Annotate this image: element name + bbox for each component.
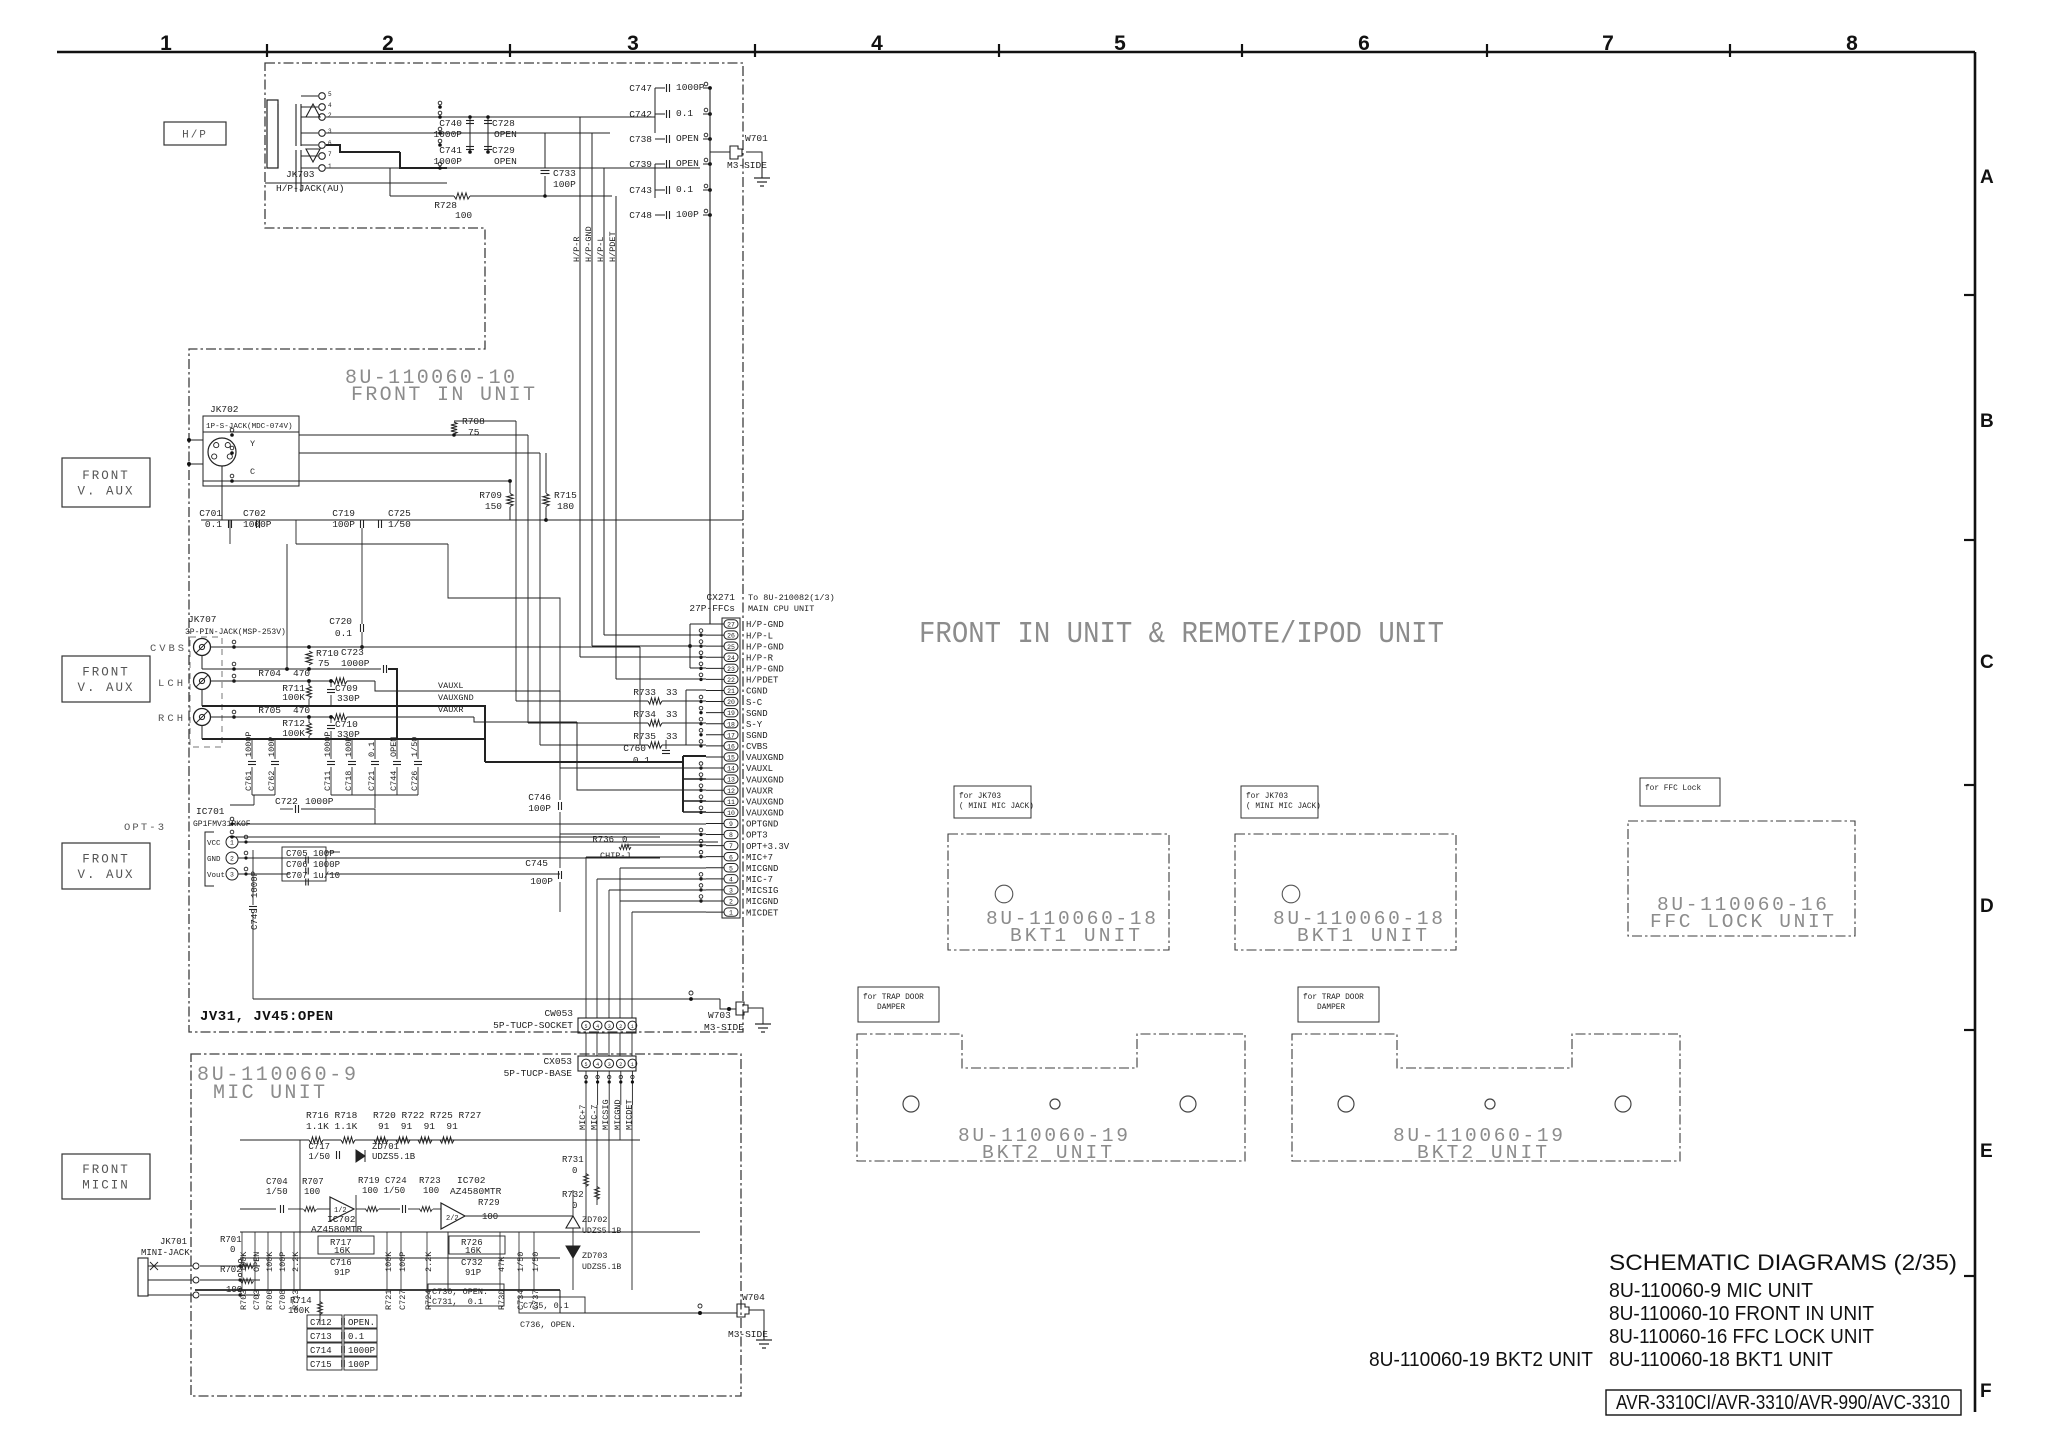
svg-text:5: 5 <box>584 1062 587 1068</box>
svg-text:AVR-3310CI/AVR-3310/AVR-990/AV: AVR-3310CI/AVR-3310/AVR-990/AVC-3310 <box>1616 1392 1950 1414</box>
svg-text:1/50: 1/50 <box>516 1252 526 1272</box>
svg-text:C761: C761 <box>244 771 254 791</box>
svg-text:C714: C714 <box>310 1346 332 1356</box>
svg-text:LCH: LCH <box>158 678 183 690</box>
svg-text:SGND: SGND <box>746 731 768 741</box>
svg-text:R708: R708 <box>462 416 485 427</box>
svg-text:V. AUX: V. AUX <box>77 681 134 695</box>
svg-text:VCC: VCC <box>207 840 221 848</box>
svg-text:R705: R705 <box>258 705 281 716</box>
svg-text:100P: 100P <box>313 849 335 859</box>
svg-text:C702: C702 <box>243 508 266 519</box>
svg-text:16K: 16K <box>465 1246 482 1256</box>
svg-text:2: 2 <box>328 112 332 119</box>
svg-text:3: 3 <box>627 32 639 55</box>
svg-text:GP1FMV31RKOF: GP1FMV31RKOF <box>193 820 251 829</box>
svg-text:VAUXGND: VAUXGND <box>746 797 784 807</box>
svg-text:C706: C706 <box>286 860 308 870</box>
svg-text:19: 19 <box>727 710 735 717</box>
svg-text:C722: C722 <box>275 796 298 807</box>
svg-text:91 91 91 91: 91 91 91 91 <box>378 1121 458 1132</box>
svg-text:6: 6 <box>729 854 733 861</box>
svg-text:MICGND: MICGND <box>746 864 778 874</box>
svg-text:M3-SIDE: M3-SIDE <box>727 160 767 171</box>
svg-text:R721: R721 <box>384 1290 394 1310</box>
svg-text:( MINI MIC JACK): ( MINI MIC JACK) <box>959 803 1034 811</box>
svg-text:for JK703: for JK703 <box>959 793 1001 801</box>
svg-text:R736: R736 <box>592 835 614 845</box>
svg-text:R709: R709 <box>479 490 502 501</box>
svg-text:OPEN: OPEN <box>676 133 699 144</box>
svg-text:2: 2 <box>619 1062 622 1068</box>
svg-text:1P-S-JACK(MDC-074V): 1P-S-JACK(MDC-074V) <box>206 423 293 431</box>
svg-text:FRONT: FRONT <box>82 1163 130 1177</box>
svg-text:UDZS5.1B: UDZS5.1B <box>372 1152 416 1162</box>
svg-text:0.1: 0.1 <box>348 1332 364 1342</box>
svg-text:1: 1 <box>160 32 172 55</box>
svg-text:CX053: CX053 <box>543 1056 572 1067</box>
svg-text:C727: C727 <box>398 1290 408 1310</box>
svg-text:C740: C740 <box>439 118 462 129</box>
svg-text:F: F <box>1980 1381 1992 1402</box>
svg-text:100P: 100P <box>344 737 354 757</box>
svg-text:27P-FFCs: 27P-FFCs <box>689 603 735 614</box>
svg-text:OPEN: OPEN <box>252 1252 262 1272</box>
svg-text:Vout: Vout <box>207 872 225 880</box>
svg-text:SGND: SGND <box>746 709 768 719</box>
svg-text:100K: 100K <box>282 692 305 703</box>
svg-text:9: 9 <box>729 821 733 828</box>
svg-text:100P: 100P <box>348 1360 370 1370</box>
svg-text:C703: C703 <box>252 1290 262 1310</box>
svg-text:R720 R722 R725 R727: R720 R722 R725 R727 <box>373 1110 481 1121</box>
svg-text:VAUXGND: VAUXGND <box>438 693 474 703</box>
svg-text:R715: R715 <box>554 490 577 501</box>
svg-text:H/P-R: H/P-R <box>572 236 582 262</box>
svg-text:2: 2 <box>382 32 394 55</box>
svg-text:1: 1 <box>729 910 733 917</box>
svg-text:W701: W701 <box>745 133 768 144</box>
svg-text:ZD703: ZD703 <box>582 1251 608 1261</box>
svg-text:1: 1 <box>328 163 332 170</box>
svg-text:1000P: 1000P <box>243 519 272 530</box>
svg-text:JK702: JK702 <box>210 404 239 415</box>
svg-text:C: C <box>1980 652 1994 673</box>
svg-text:CW053: CW053 <box>544 1008 573 1019</box>
svg-text:VAUXR: VAUXR <box>746 786 774 796</box>
svg-text:100K: 100K <box>239 1251 249 1272</box>
svg-text:H/P-JACK(AU): H/P-JACK(AU) <box>276 183 344 194</box>
svg-text:C720: C720 <box>329 616 352 627</box>
svg-text:33: 33 <box>666 709 678 720</box>
svg-text:2: 2 <box>729 899 733 906</box>
svg-text:C705: C705 <box>286 849 308 859</box>
svg-text:R704: R704 <box>258 668 281 679</box>
svg-text:JK701: JK701 <box>160 1237 187 1247</box>
svg-text:M3-SIDE: M3-SIDE <box>704 1022 744 1033</box>
svg-text:23: 23 <box>727 666 735 673</box>
svg-text:AZ4580MTR: AZ4580MTR <box>450 1186 502 1197</box>
svg-text:1000P: 1000P <box>433 156 462 167</box>
svg-text:C731, 0.1: C731, 0.1 <box>432 1297 483 1307</box>
svg-text:C735, 0.1: C735, 0.1 <box>523 1301 569 1311</box>
svg-text:1000P: 1000P <box>313 860 340 870</box>
svg-text:C762: C762 <box>267 771 277 791</box>
svg-text:C749: C749 <box>250 908 260 930</box>
svg-text:C725: C725 <box>388 508 411 519</box>
svg-text:75: 75 <box>318 658 330 669</box>
svg-text:100: 100 <box>304 1187 320 1197</box>
svg-text:C726: C726 <box>410 771 420 791</box>
svg-text:CHIP-J: CHIP-J <box>600 851 631 861</box>
svg-text:OPT3: OPT3 <box>746 831 768 841</box>
svg-text:C746: C746 <box>528 792 551 803</box>
svg-text:C711: C711 <box>323 771 333 791</box>
svg-text:C728: C728 <box>492 118 515 129</box>
svg-text:BKT1 UNIT: BKT1 UNIT <box>1010 925 1140 947</box>
svg-text:100P: 100P <box>267 737 277 757</box>
svg-text:JK707: JK707 <box>188 614 217 625</box>
svg-text:R701: R701 <box>220 1235 242 1245</box>
svg-text:16K: 16K <box>334 1246 351 1256</box>
svg-text:C729: C729 <box>492 145 515 156</box>
svg-text:A: A <box>1980 167 1994 188</box>
svg-text:16: 16 <box>727 743 735 750</box>
svg-text:26: 26 <box>727 633 735 640</box>
svg-text:( MINI MIC JACK): ( MINI MIC JACK) <box>1246 803 1321 811</box>
svg-text:C736, OPEN.: C736, OPEN. <box>520 1320 576 1330</box>
svg-text:C747: C747 <box>629 83 652 94</box>
svg-text:1000P: 1000P <box>250 871 260 898</box>
svg-text:100K: 100K <box>282 728 305 739</box>
svg-text:R733: R733 <box>633 687 656 698</box>
svg-text:VAUXGND: VAUXGND <box>746 775 784 785</box>
svg-text:100: 100 <box>423 1186 439 1196</box>
svg-text:MICGND: MICGND <box>613 1099 623 1130</box>
svg-text:5: 5 <box>584 1024 587 1030</box>
svg-text:13: 13 <box>727 777 735 784</box>
svg-text:C712: C712 <box>310 1318 332 1328</box>
svg-text:R714: R714 <box>290 1296 312 1306</box>
svg-text:FRONT: FRONT <box>82 666 130 680</box>
svg-text:100K: 100K <box>384 1251 394 1272</box>
svg-text:180: 180 <box>557 501 574 512</box>
svg-text:1000P: 1000P <box>433 129 462 140</box>
svg-text:75: 75 <box>468 427 480 438</box>
svg-text:1000P: 1000P <box>305 796 334 807</box>
svg-text:C741: C741 <box>439 145 462 156</box>
svg-text:GND: GND <box>207 856 221 864</box>
svg-text:OPT+3.3V: OPT+3.3V <box>746 842 790 852</box>
svg-text:5P-TUCP-SOCKET: 5P-TUCP-SOCKET <box>493 1020 573 1031</box>
svg-text:W704: W704 <box>742 1292 765 1303</box>
svg-text:C748: C748 <box>629 210 652 221</box>
svg-text:100P: 100P <box>676 209 699 220</box>
svg-text:OPEN: OPEN <box>494 129 517 140</box>
svg-text:R706: R706 <box>265 1290 275 1310</box>
svg-text:H/P-GND: H/P-GND <box>746 665 784 675</box>
svg-text:100K: 100K <box>265 1251 275 1272</box>
svg-text:UDZS5.1B: UDZS5.1B <box>582 1263 621 1272</box>
svg-text:3: 3 <box>608 1024 611 1030</box>
svg-text:ZD701: ZD701 <box>372 1142 399 1152</box>
svg-text:2.2K: 2.2K <box>424 1251 434 1272</box>
svg-text:0.1: 0.1 <box>205 519 222 530</box>
svg-text:6: 6 <box>1358 32 1370 55</box>
svg-text:33: 33 <box>666 687 678 698</box>
svg-text:To 8U-210082(1/3): To 8U-210082(1/3) <box>748 593 835 603</box>
svg-text:C745: C745 <box>525 858 548 869</box>
svg-text:H/P-L: H/P-L <box>746 631 773 641</box>
svg-text:H/PDET: H/PDET <box>608 231 618 262</box>
svg-text:C743: C743 <box>629 185 652 196</box>
svg-text:VAUXL: VAUXL <box>438 681 464 691</box>
svg-text:20: 20 <box>727 699 735 706</box>
svg-text:4: 4 <box>596 1062 599 1068</box>
svg-text:0: 0 <box>622 835 627 845</box>
svg-text:330P: 330P <box>337 693 360 704</box>
svg-text:for TRAP DOOR: for TRAP DOOR <box>863 994 924 1002</box>
svg-text:C738: C738 <box>629 134 652 145</box>
svg-text:1/50: 1/50 <box>308 1152 330 1162</box>
svg-text:C719: C719 <box>332 508 355 519</box>
svg-text:R731: R731 <box>562 1155 584 1165</box>
svg-text:7: 7 <box>328 151 332 158</box>
svg-text:MICDET: MICDET <box>746 908 779 918</box>
svg-text:C718: C718 <box>344 771 354 791</box>
svg-text:C713: C713 <box>310 1332 332 1342</box>
svg-text:1000P: 1000P <box>323 731 333 757</box>
svg-text:FRONT: FRONT <box>82 853 130 867</box>
svg-text:ZD702: ZD702 <box>582 1215 608 1225</box>
svg-text:C739: C739 <box>629 159 652 170</box>
svg-text:BKT2 UNIT: BKT2 UNIT <box>1417 1142 1547 1164</box>
svg-text:C: C <box>250 467 255 477</box>
svg-text:1/50: 1/50 <box>531 1252 541 1272</box>
svg-text:R732: R732 <box>562 1190 584 1200</box>
svg-text:OPEN: OPEN <box>676 158 699 169</box>
svg-text:R729: R729 <box>478 1198 500 1208</box>
svg-text:24: 24 <box>727 655 735 662</box>
svg-text:FRONT IN UNIT & REMOTE/IPOD UN: FRONT IN UNIT & REMOTE/IPOD UNIT <box>919 617 1444 652</box>
svg-text:3: 3 <box>230 872 234 879</box>
svg-text:470: 470 <box>293 705 310 716</box>
svg-text:IC701: IC701 <box>196 806 225 817</box>
svg-text:R734: R734 <box>633 709 656 720</box>
svg-text:S-C: S-C <box>746 698 763 708</box>
svg-text:C717: C717 <box>308 1142 330 1152</box>
svg-text:R730: R730 <box>497 1290 507 1310</box>
svg-text:15: 15 <box>727 755 735 762</box>
svg-text:Y: Y <box>250 439 255 449</box>
svg-text:MIC+7: MIC+7 <box>746 853 773 863</box>
svg-text:CGND: CGND <box>746 687 768 697</box>
svg-text:100: 100 <box>455 210 472 221</box>
svg-text:H/P-GND: H/P-GND <box>746 620 784 630</box>
svg-text:100P: 100P <box>553 179 576 190</box>
svg-text:C716: C716 <box>330 1258 352 1268</box>
svg-text:5: 5 <box>729 865 733 872</box>
svg-text:7: 7 <box>1602 32 1614 55</box>
svg-text:C732: C732 <box>461 1258 483 1268</box>
svg-text:100: 100 <box>482 1212 498 1222</box>
svg-text:1/50: 1/50 <box>410 737 420 757</box>
svg-text:C704: C704 <box>266 1177 288 1187</box>
svg-text:100P: 100P <box>398 1252 408 1272</box>
svg-text:for TRAP DOOR: for TRAP DOOR <box>1303 994 1364 1002</box>
svg-text:0.1: 0.1 <box>335 628 352 639</box>
svg-text:H/PDET: H/PDET <box>746 676 779 686</box>
svg-text:1: 1 <box>230 840 234 847</box>
svg-text:MICGND: MICGND <box>746 897 778 907</box>
svg-text:1u/10: 1u/10 <box>313 871 340 881</box>
svg-text:C723: C723 <box>341 647 364 658</box>
svg-text:R719 C724: R719 C724 <box>358 1176 407 1186</box>
svg-text:H/P-GND: H/P-GND <box>584 226 594 262</box>
svg-text:OPEN.: OPEN. <box>348 1318 375 1328</box>
svg-text:BKT1 UNIT: BKT1 UNIT <box>1297 925 1427 947</box>
svg-text:21: 21 <box>727 688 735 695</box>
svg-text:SCHEMATIC DIAGRAMS (2/35): SCHEMATIC DIAGRAMS (2/35) <box>1609 1250 1957 1275</box>
svg-text:33: 33 <box>666 731 678 742</box>
svg-text:C715: C715 <box>310 1360 332 1370</box>
svg-text:OPT-3: OPT-3 <box>124 822 164 834</box>
svg-text:5: 5 <box>1114 32 1126 55</box>
svg-text:22: 22 <box>727 677 735 684</box>
svg-text:1000P: 1000P <box>676 82 705 93</box>
svg-text:8U-110060-9 MIC UNIT: 8U-110060-9 MIC UNIT <box>1609 1280 1813 1302</box>
svg-text:MINI-JACK: MINI-JACK <box>141 1248 190 1258</box>
svg-text:100K: 100K <box>288 1306 310 1316</box>
svg-text:8: 8 <box>729 832 733 839</box>
svg-text:3: 3 <box>729 888 733 895</box>
svg-text:1000P: 1000P <box>348 1346 375 1356</box>
svg-text:0.1: 0.1 <box>676 108 693 119</box>
svg-text:100P: 100P <box>528 803 551 814</box>
svg-text:14: 14 <box>727 766 735 773</box>
svg-text:D: D <box>1980 896 1994 917</box>
svg-text:8: 8 <box>1846 32 1858 55</box>
svg-text:0.1: 0.1 <box>676 184 693 195</box>
svg-text:25: 25 <box>727 644 735 651</box>
svg-text:R728: R728 <box>434 200 457 211</box>
svg-text:8U-110060-10 FRONT IN UNIT: 8U-110060-10 FRONT IN UNIT <box>1609 1303 1874 1325</box>
svg-text:R716 R718: R716 R718 <box>306 1110 358 1121</box>
svg-text:M3-SIDE: M3-SIDE <box>728 1329 768 1340</box>
svg-text:100P: 100P <box>530 876 553 887</box>
svg-text:BKT2 UNIT: BKT2 UNIT <box>982 1142 1112 1164</box>
svg-text:4: 4 <box>596 1024 599 1030</box>
svg-text:VAUXGND: VAUXGND <box>746 753 784 763</box>
svg-text:7: 7 <box>729 843 733 850</box>
svg-text:12: 12 <box>727 788 735 795</box>
svg-text:5: 5 <box>328 91 332 98</box>
svg-text:2/2: 2/2 <box>446 1215 459 1223</box>
svg-text:4: 4 <box>871 32 883 55</box>
svg-text:1000P: 1000P <box>244 731 254 757</box>
svg-text:8U-110060-16 FFC LOCK UNIT: 8U-110060-16 FFC LOCK UNIT <box>1609 1326 1874 1348</box>
svg-text:1: 1 <box>631 1062 634 1068</box>
svg-text:VAUXGND: VAUXGND <box>746 809 784 819</box>
svg-text:470: 470 <box>293 668 310 679</box>
svg-text:MICSIG: MICSIG <box>746 886 778 896</box>
svg-text:8U-110060-19 BKT2 UNIT: 8U-110060-19 BKT2 UNIT <box>1369 1349 1593 1371</box>
svg-text:0: 0 <box>572 1166 577 1176</box>
svg-text:OPTGND: OPTGND <box>746 820 778 830</box>
svg-text:MICIN: MICIN <box>82 1179 130 1193</box>
svg-text:MIC+7: MIC+7 <box>578 1104 588 1130</box>
svg-text:91P: 91P <box>334 1268 350 1278</box>
svg-text:18: 18 <box>727 721 735 728</box>
svg-text:VAUXL: VAUXL <box>746 764 773 774</box>
svg-text:H/P: H/P <box>182 129 208 141</box>
svg-text:10: 10 <box>727 810 735 817</box>
svg-text:DAMPER: DAMPER <box>1303 1004 1345 1012</box>
svg-text:V. AUX: V. AUX <box>77 485 134 499</box>
svg-text:100 1/50: 100 1/50 <box>362 1186 405 1196</box>
svg-text:91P: 91P <box>465 1268 481 1278</box>
svg-text:C721: C721 <box>367 771 377 791</box>
svg-text:0.1: 0.1 <box>367 742 377 757</box>
svg-text:for FFC Lock: for FFC Lock <box>1645 785 1701 793</box>
svg-text:R735: R735 <box>633 731 656 742</box>
svg-text:RCH: RCH <box>158 713 183 725</box>
svg-text:0: 0 <box>230 1245 235 1255</box>
svg-text:MIC-7: MIC-7 <box>746 875 773 885</box>
svg-text:UDZS5.1B: UDZS5.1B <box>582 1227 621 1236</box>
svg-text:IC702: IC702 <box>457 1175 486 1186</box>
svg-text:3: 3 <box>328 128 332 135</box>
svg-text:3P-PIN-JACK(MSP-253V): 3P-PIN-JACK(MSP-253V) <box>185 628 286 637</box>
svg-text:150: 150 <box>485 501 502 512</box>
svg-text:C708: C708 <box>278 1290 288 1310</box>
svg-text:MICDET: MICDET <box>624 1099 634 1130</box>
svg-text:CX271: CX271 <box>706 592 735 603</box>
svg-text:2: 2 <box>230 856 234 863</box>
svg-text:DAMPER: DAMPER <box>863 1004 905 1012</box>
svg-text:E: E <box>1980 1141 1993 1162</box>
svg-text:11: 11 <box>727 799 735 806</box>
svg-text:C707: C707 <box>286 871 308 881</box>
svg-text:S-Y: S-Y <box>746 720 763 730</box>
svg-text:100P: 100P <box>278 1252 288 1272</box>
svg-text:OPEN: OPEN <box>389 737 399 757</box>
svg-text:B: B <box>1980 411 1994 432</box>
svg-text:H/P-L: H/P-L <box>596 236 606 262</box>
svg-text:1.1K 1.1K: 1.1K 1.1K <box>306 1121 358 1132</box>
svg-text:27: 27 <box>727 622 735 629</box>
svg-text:AZ4580MTR: AZ4580MTR <box>311 1224 363 1235</box>
svg-text:1: 1 <box>631 1024 634 1030</box>
svg-text:C742: C742 <box>629 109 652 120</box>
svg-text:C730, OPEN.: C730, OPEN. <box>432 1287 488 1297</box>
svg-text:JV31, JV45:OPEN: JV31, JV45:OPEN <box>200 1009 334 1025</box>
svg-text:for JK703: for JK703 <box>1246 793 1288 801</box>
svg-text:H/P-GND: H/P-GND <box>746 642 784 652</box>
svg-text:CVBS: CVBS <box>746 742 768 752</box>
svg-text:C733: C733 <box>553 168 576 179</box>
svg-text:H/P-R: H/P-R <box>746 653 774 663</box>
svg-text:1/50: 1/50 <box>266 1187 288 1197</box>
svg-text:MIC-7: MIC-7 <box>590 1104 600 1130</box>
svg-text:FRONT: FRONT <box>82 469 130 483</box>
svg-text:R703: R703 <box>239 1290 249 1310</box>
svg-text:2.2K: 2.2K <box>291 1251 301 1272</box>
svg-text:0.1: 0.1 <box>633 755 650 766</box>
svg-text:5P-TUCP-BASE: 5P-TUCP-BASE <box>504 1068 573 1079</box>
svg-text:JK703: JK703 <box>286 169 315 180</box>
svg-text:R707: R707 <box>302 1177 324 1187</box>
